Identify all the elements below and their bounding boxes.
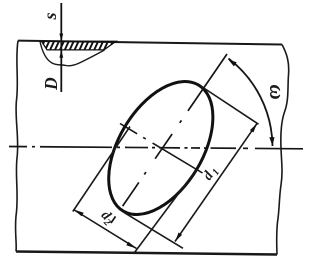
- svg-text:d1: d1: [200, 164, 222, 185]
- svg-text:s: s: [40, 12, 60, 20]
- svg-text:ω: ω: [265, 85, 289, 100]
- svg-text:D: D: [41, 77, 61, 91]
